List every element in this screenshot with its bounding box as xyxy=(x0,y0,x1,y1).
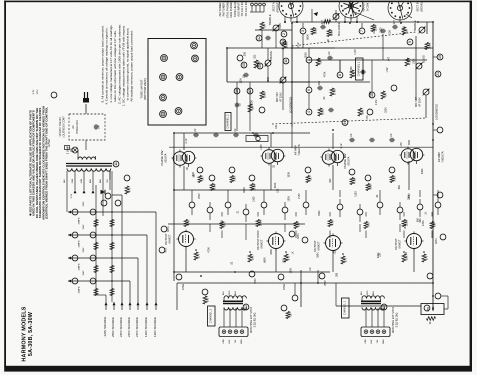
svg-text:470Ω: 470Ω xyxy=(283,284,286,290)
svg-text:WAFER: WAFER xyxy=(363,2,366,11)
svg-text:100K: 100K xyxy=(290,268,293,274)
svg-text:470K: 470K xyxy=(256,61,260,67)
svg-text:10K: 10K xyxy=(277,188,280,193)
svg-text:CHANNEL 2: CHANNEL 2 xyxy=(226,114,229,129)
svg-text:150K: 150K xyxy=(318,210,321,216)
svg-text:1M: 1M xyxy=(432,223,436,227)
svg-text:330K: 330K xyxy=(270,249,273,255)
svg-text:1500: 1500 xyxy=(252,196,255,202)
svg-text:1K: 1K xyxy=(200,177,204,180)
svg-text:.022: .022 xyxy=(334,249,337,254)
svg-text:470: 470 xyxy=(127,187,131,192)
svg-text:250V: 250V xyxy=(199,193,201,199)
svg-text:TO CH 2 IN: TO CH 2 IN xyxy=(244,2,248,16)
svg-text:B-COM: B-COM xyxy=(366,3,369,11)
svg-text:56K: 56K xyxy=(398,185,401,190)
svg-text:220K: 220K xyxy=(373,28,376,34)
svg-text:RED: RED xyxy=(229,290,231,295)
svg-text:.022: .022 xyxy=(329,178,332,183)
svg-text:220K: 220K xyxy=(385,107,388,113)
svg-text:FM TUNER: FM TUNER xyxy=(222,3,226,17)
svg-text:3: 3 xyxy=(301,30,305,32)
svg-text:330K: 330K xyxy=(262,92,266,98)
svg-text:330K: 330K xyxy=(377,252,380,258)
svg-text:470K: 470K xyxy=(422,220,425,226)
svg-text:270: 270 xyxy=(343,257,347,262)
svg-text:AM TUNER: AM TUNER xyxy=(218,2,222,16)
svg-text:245V SOURCE: 245V SOURCE xyxy=(119,317,123,337)
svg-text:11: 11 xyxy=(284,59,288,63)
svg-text:TO CH 1 IN: TO CH 1 IN xyxy=(240,2,244,16)
svg-text:270: 270 xyxy=(196,253,200,258)
svg-text:2.1V: 2.1V xyxy=(297,42,300,47)
svg-text:.02: .02 xyxy=(194,128,197,132)
svg-text:40MFD: 40MFD xyxy=(79,286,81,293)
svg-text:2: 2 xyxy=(282,33,286,35)
svg-text:BLK: BLK xyxy=(371,339,373,343)
svg-text:680K: 680K xyxy=(329,30,333,36)
svg-text:220K: 220K xyxy=(258,220,262,226)
svg-text:AUX INPUT: AUX INPUT xyxy=(237,2,241,17)
svg-text:1M: 1M xyxy=(383,93,387,97)
svg-text:1M: 1M xyxy=(309,268,312,271)
svg-text:12: 12 xyxy=(244,305,248,309)
svg-text:CHANNEL 1: CHANNEL 1 xyxy=(357,61,361,76)
svg-text:BASS: BASS xyxy=(422,55,426,63)
svg-text:10K: 10K xyxy=(388,30,391,35)
svg-text:LOUDNESS: LOUDNESS xyxy=(435,104,439,120)
svg-text:BALANCE: BALANCE xyxy=(337,22,341,36)
svg-text:270K: 270K xyxy=(252,184,256,190)
svg-text:117VAC: 117VAC xyxy=(48,138,51,147)
svg-text:220K: 220K xyxy=(251,100,254,106)
svg-text:100: 100 xyxy=(205,297,209,302)
svg-text:½6EU7A: ½6EU7A xyxy=(441,151,445,162)
svg-text:LOUDNESS: LOUDNESS xyxy=(289,97,293,114)
svg-text:BASS: BASS xyxy=(269,51,273,59)
svg-text:470K: 470K xyxy=(352,178,356,184)
svg-text:40MFD: 40MFD xyxy=(79,263,81,270)
svg-text:150K: 150K xyxy=(404,223,407,229)
svg-text:5A-30B, 5A-30W: 5A-30B, 5A-30W xyxy=(28,311,34,356)
svg-text:GRN: GRN xyxy=(223,339,225,344)
svg-text:RED: RED xyxy=(90,178,92,183)
svg-text:MT1: MT1 xyxy=(164,247,168,253)
svg-text:117V: 117V xyxy=(354,49,357,55)
svg-text:All readings minimum, proper o: All readings minimum, proper output load… xyxy=(129,30,133,101)
svg-text:40MFD: 40MFD xyxy=(79,240,81,247)
svg-text:1500: 1500 xyxy=(355,191,358,197)
svg-text:SECT B: SECT B xyxy=(416,2,420,12)
svg-text:11: 11 xyxy=(114,162,118,166)
svg-text:INTERLOCK: INTERLOCK xyxy=(76,120,79,134)
svg-text:(CONTROL VIEWED FROM SHAFT END: (CONTROL VIEWED FROM SHAFT END) FROM THE… xyxy=(45,107,49,219)
svg-text:BLK: BLK xyxy=(373,290,375,295)
svg-text:BRN: BRN xyxy=(383,339,385,344)
svg-text:150K: 150K xyxy=(369,91,372,97)
svg-text:6.3V: 6.3V xyxy=(33,89,35,94)
svg-text:6V6GT: 6V6GT xyxy=(168,234,172,243)
svg-text:350V: 350V xyxy=(83,224,85,229)
svg-text:215V: 215V xyxy=(299,193,301,199)
svg-text:10K: 10K xyxy=(275,124,278,129)
svg-text:100K: 100K xyxy=(283,258,286,264)
svg-text:21: 21 xyxy=(436,72,440,76)
svg-text:.02: .02 xyxy=(350,133,353,137)
svg-text:10K: 10K xyxy=(265,62,268,67)
svg-text:.022: .022 xyxy=(253,54,256,59)
svg-text:470Ω: 470Ω xyxy=(182,284,185,290)
svg-text:56K: 56K xyxy=(360,109,364,114)
svg-text:.01: .01 xyxy=(366,223,370,227)
svg-text:.005: .005 xyxy=(243,51,246,56)
svg-text:GRN: GRN xyxy=(81,178,83,183)
svg-text:6V6GT: 6V6GT xyxy=(260,239,264,248)
svg-text:GRN: GRN xyxy=(72,178,74,183)
svg-text:270: 270 xyxy=(424,255,428,260)
svg-text:215V SOURCE: 215V SOURCE xyxy=(135,317,139,337)
svg-text:140V SOURCE: 140V SOURCE xyxy=(144,317,148,337)
svg-text:8: 8 xyxy=(338,74,342,76)
svg-text:.02: .02 xyxy=(234,128,237,132)
svg-text:680K: 680K xyxy=(264,257,267,263)
svg-text:.02: .02 xyxy=(239,103,242,107)
svg-text:-120V SOURCE: -120V SOURCE xyxy=(103,316,107,337)
svg-text:1M: 1M xyxy=(262,24,266,28)
svg-text:270: 270 xyxy=(286,255,290,260)
svg-text:330K: 330K xyxy=(274,182,277,188)
svg-text:HARMONY MODELS: HARMONY MODELS xyxy=(22,306,28,361)
svg-text:47K: 47K xyxy=(366,115,369,120)
svg-text:1M: 1M xyxy=(318,60,322,64)
svg-text:ON-OFF SW ON: ON-OFF SW ON xyxy=(59,117,62,136)
svg-text:CHANNEL 1: CHANNEL 1 xyxy=(344,300,347,315)
svg-text:470K: 470K xyxy=(212,184,216,190)
svg-text:820K: 820K xyxy=(243,187,246,193)
svg-text:250V SOURCE: 250V SOURCE xyxy=(111,317,115,337)
svg-text:2.1V: 2.1V xyxy=(340,143,343,148)
svg-text:AT 150K: AT 150K xyxy=(418,97,421,107)
svg-text:17: 17 xyxy=(248,89,252,93)
svg-text:1M: 1M xyxy=(296,223,300,227)
svg-text:TREBLE: TREBLE xyxy=(413,20,417,31)
svg-text:XTAL PHONO: XTAL PHONO xyxy=(225,1,229,18)
svg-text:(REAR): (REAR) xyxy=(419,2,423,11)
svg-text:MT1: MT1 xyxy=(434,238,438,244)
svg-text:117V: 117V xyxy=(260,144,263,150)
svg-text:CHANNEL 2: CHANNEL 2 xyxy=(210,308,213,323)
svg-text:SECT A: SECT A xyxy=(272,2,276,11)
svg-text:1500: 1500 xyxy=(350,66,353,72)
svg-text:BLU: BLU xyxy=(361,290,363,295)
svg-text:BRN: BRN xyxy=(241,339,243,344)
svg-text:RED: RED xyxy=(100,178,102,183)
svg-text:15: 15 xyxy=(242,63,246,67)
svg-text:AC: AC xyxy=(72,125,75,129)
svg-text:3.2Ω 8Ω 16Ω: 3.2Ω 8Ω 16Ω xyxy=(254,313,257,328)
svg-text:250V: 250V xyxy=(325,280,327,286)
svg-text:TAPE HEAD: TAPE HEAD xyxy=(233,2,237,17)
svg-text:16: 16 xyxy=(235,89,239,93)
svg-text:.047: .047 xyxy=(321,19,324,24)
svg-text:330K: 330K xyxy=(317,252,320,258)
svg-text:150K: 150K xyxy=(288,196,291,202)
svg-text:270K: 270K xyxy=(332,89,336,95)
svg-text:2.2M: 2.2M xyxy=(220,220,223,225)
svg-text:100K: 100K xyxy=(313,28,317,34)
svg-text:1M: 1M xyxy=(243,75,246,78)
svg-text:MT1: MT1 xyxy=(427,306,430,312)
svg-text:4: 4 xyxy=(307,111,311,113)
svg-text:235V SOURCE: 235V SOURCE xyxy=(127,317,131,337)
svg-text:6.3V: 6.3V xyxy=(71,193,73,198)
svg-text:100K: 100K xyxy=(413,58,416,64)
svg-text:TREBLE: TREBLE xyxy=(268,14,272,25)
svg-text:49: 49 xyxy=(343,120,347,124)
svg-text:47K: 47K xyxy=(330,220,334,225)
svg-text:.015: .015 xyxy=(232,176,236,182)
svg-text:470K: 470K xyxy=(323,71,326,77)
svg-text:470K: 470K xyxy=(407,59,411,65)
svg-text:3.2Ω 8Ω 16Ω: 3.2Ω 8Ω 16Ω xyxy=(396,313,399,328)
svg-text:RED: RED xyxy=(367,290,369,295)
svg-text:6V6GT: 6V6GT xyxy=(398,239,402,248)
svg-text:(FRONT): (FRONT) xyxy=(275,2,279,13)
svg-text:47K: 47K xyxy=(186,220,190,225)
svg-text:6EU7A: 6EU7A xyxy=(347,156,351,165)
svg-text:5: 5 xyxy=(307,59,311,61)
svg-text:CER PHONO: CER PHONO xyxy=(229,1,233,17)
svg-text:270K: 270K xyxy=(403,25,406,31)
svg-text:100K: 100K xyxy=(407,194,410,200)
svg-text:2.2M: 2.2M xyxy=(280,78,283,83)
svg-text:1.5V: 1.5V xyxy=(386,67,389,72)
svg-text:470K: 470K xyxy=(208,247,211,253)
svg-text:1K: 1K xyxy=(292,251,295,254)
svg-text:330K: 330K xyxy=(288,171,291,177)
svg-text:.047: .047 xyxy=(98,124,101,129)
svg-text:BLK: BLK xyxy=(64,178,66,182)
svg-text:AT 150K: AT 150K xyxy=(279,92,282,102)
svg-text:40MFD: 40MFD xyxy=(79,217,81,224)
svg-text:½6EU7A: ½6EU7A xyxy=(297,144,301,155)
svg-text:1500: 1500 xyxy=(380,27,383,33)
svg-text:350V: 350V xyxy=(83,270,85,275)
svg-text:(BOTTOM VIEW): (BOTTOM VIEW) xyxy=(143,78,147,100)
svg-text:.047: .047 xyxy=(388,56,391,61)
svg-text:56K: 56K xyxy=(419,218,422,223)
svg-text:14: 14 xyxy=(281,40,285,44)
svg-text:330K: 330K xyxy=(320,109,324,115)
svg-text:250V: 250V xyxy=(255,278,257,284)
svg-text:6V6GT: 6V6GT xyxy=(317,241,321,250)
svg-text:MT1: MT1 xyxy=(296,233,300,239)
svg-text:7: 7 xyxy=(360,30,364,32)
svg-text:BLK: BLK xyxy=(235,290,237,295)
svg-text:.02: .02 xyxy=(328,51,331,55)
svg-text:2.1V: 2.1V xyxy=(185,138,188,143)
svg-text:.02: .02 xyxy=(390,133,393,137)
svg-text:56K: 56K xyxy=(368,184,372,189)
svg-text:117V: 117V xyxy=(37,89,39,94)
svg-text:BLK: BLK xyxy=(229,339,231,343)
svg-text:.047: .047 xyxy=(393,19,396,24)
svg-text:100K: 100K xyxy=(279,23,282,29)
svg-text:1K: 1K xyxy=(308,177,312,180)
svg-text:1M: 1M xyxy=(250,106,254,110)
svg-text:10K: 10K xyxy=(250,255,254,260)
svg-text:.005: .005 xyxy=(336,272,339,277)
svg-text:330K: 330K xyxy=(421,168,424,174)
svg-text:350V: 350V xyxy=(83,201,85,206)
svg-text:680K: 680K xyxy=(306,34,309,40)
svg-text:MT1: MT1 xyxy=(166,226,170,232)
svg-text:19: 19 xyxy=(438,55,442,59)
svg-text:120V SOURCE: 120V SOURCE xyxy=(153,317,157,337)
svg-text:12: 12 xyxy=(257,36,261,40)
svg-text:6EU7A: 6EU7A xyxy=(164,153,168,162)
svg-text:820K: 820K xyxy=(305,52,308,58)
svg-text:9: 9 xyxy=(408,41,412,43)
svg-text:680K: 680K xyxy=(267,77,270,83)
svg-text:117V: 117V xyxy=(400,142,403,148)
svg-text:BLU: BLU xyxy=(223,290,225,295)
svg-text:2.2M: 2.2M xyxy=(375,100,378,105)
svg-text:1K: 1K xyxy=(424,211,427,214)
svg-text:GRN: GRN xyxy=(365,339,367,344)
svg-text:350V: 350V xyxy=(83,247,85,252)
svg-text:6: 6 xyxy=(307,89,311,91)
svg-text:.015: .015 xyxy=(392,176,396,182)
svg-text:LOUDNESS CONT: LOUDNESS CONT xyxy=(63,116,66,138)
svg-text:.005: .005 xyxy=(318,80,321,85)
